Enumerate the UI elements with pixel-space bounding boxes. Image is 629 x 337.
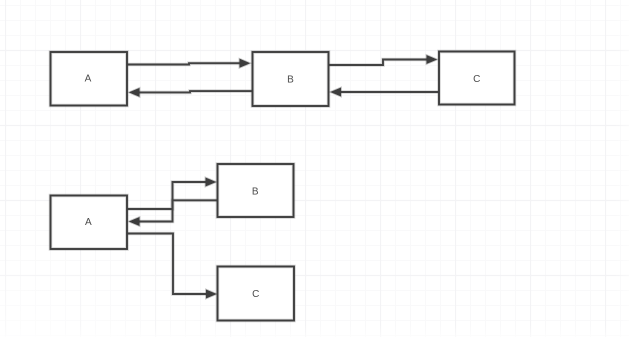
bottom-left corner fade <box>0 230 260 337</box>
svg-text:B: B <box>287 75 294 86</box>
wire A2 to C2 <box>127 234 206 295</box>
right edge fade <box>615 0 629 337</box>
wire B1 to C1 <box>329 60 427 66</box>
bottom edge fade <box>0 325 629 337</box>
arrowhead into C1 from B1 <box>427 55 438 64</box>
box C1 <box>439 52 515 105</box>
svg-text:A: A <box>85 217 92 228</box>
wire B2 to A2 <box>140 200 218 221</box>
box C2 <box>218 267 295 321</box>
arrowhead into A1 from B1 <box>129 88 140 97</box>
svg-text:C: C <box>473 74 480 85</box>
svg-text:C: C <box>252 289 259 300</box>
box A2 <box>51 196 128 250</box>
arrowhead into B1 from A1 <box>240 59 251 68</box>
wire A1 to B1 <box>127 63 240 64</box>
arrowhead into B1 from C1 <box>331 88 342 97</box>
box B2 <box>218 164 294 217</box>
wire B1 to A1 <box>140 91 253 92</box>
arrowhead into B2 from A2 <box>206 178 217 187</box>
box B1 <box>253 52 329 106</box>
wire C1 to B1 <box>341 90 439 94</box>
arrowhead into C2 from A2 <box>206 290 217 299</box>
box A1 <box>51 52 128 106</box>
wire A2 to B2 <box>127 182 206 209</box>
arrowhead into A2 from B2 <box>129 217 140 226</box>
svg-text:B: B <box>252 186 259 197</box>
svg-text:A: A <box>85 74 92 85</box>
